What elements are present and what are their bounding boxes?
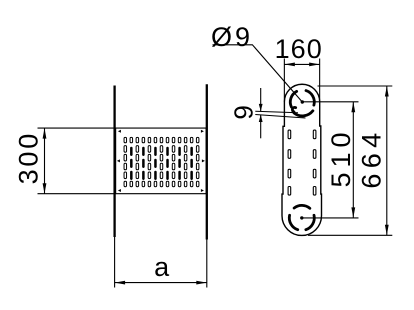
profile side slots	[288, 130, 316, 195]
bottom hole center	[300, 216, 303, 219]
profile outline	[282, 84, 322, 235]
right tray side wall	[206, 84, 208, 239]
dimension 510	[302, 102, 359, 218]
svg-text:160: 160	[275, 34, 323, 64]
svg-text:510: 510	[326, 127, 356, 187]
plate top edge with 300 extension line	[38, 127, 207, 129]
plate fixing tick marks	[117, 130, 205, 192]
perforated plate right edge	[205, 128, 207, 194]
svg-text:Ø9: Ø9	[211, 22, 253, 52]
dimension 300	[14, 128, 47, 194]
dimension 160	[275, 34, 323, 102]
perforated plate left edge	[115, 128, 117, 194]
leader Ø9	[211, 22, 302, 102]
bottom hole turn-buckle arcs	[289, 205, 314, 229]
dimension 9	[228, 88, 262, 138]
perforation slot pattern	[124, 137, 199, 186]
top hole turn-buckle arcs	[290, 91, 314, 116]
plate bottom edge with 300 extension line	[38, 193, 207, 195]
svg-text:300: 300	[14, 131, 44, 184]
dimension 664	[308, 86, 392, 235]
svg-text:9: 9	[228, 105, 258, 119]
left tray side wall	[113, 86, 115, 238]
top hole center	[301, 100, 304, 103]
svg-text:664: 664	[357, 128, 387, 189]
tab edge reference lines for 9	[255, 111, 305, 118]
svg-text:a: a	[154, 252, 170, 282]
dimension a	[115, 237, 207, 288]
